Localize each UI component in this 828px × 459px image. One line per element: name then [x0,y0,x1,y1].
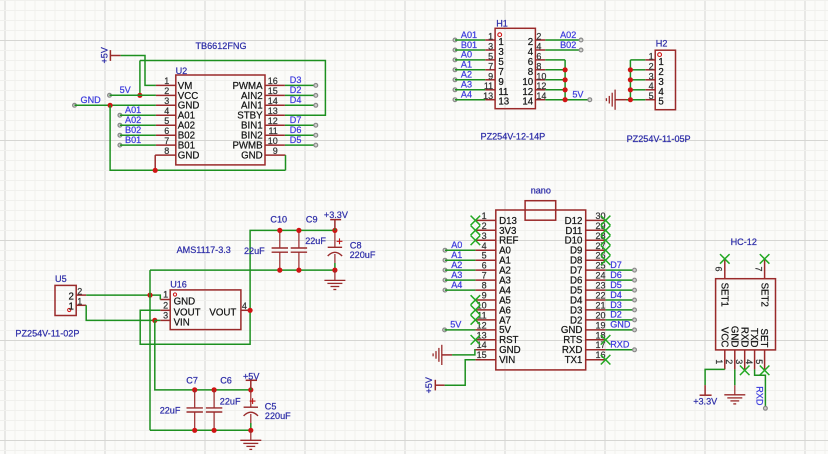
junction GND branch [108,103,113,108]
svg-text:A01: A01 [461,30,477,40]
svg-text:5: 5 [482,251,487,261]
H1 pin 3 [485,42,504,59]
svg-text:23: 23 [595,281,605,291]
HC-12 pin 6 (SET1) [714,259,730,307]
svg-text:13: 13 [268,106,278,116]
svg-text:220uF: 220uF [265,411,291,421]
svg-text:24: 24 [595,271,605,281]
no-connect crosses nano left [471,216,481,345]
label H2 [656,39,668,49]
H1 pin 7 [485,61,504,78]
U2 pin 9 (GND) [241,146,285,162]
net label A01 (H1) [453,30,485,42]
nano pin 23 (D5) [570,281,606,297]
svg-text:4: 4 [536,42,541,52]
svg-text:D7: D7 [610,260,622,270]
H1 pin 9 [485,71,504,88]
connector H2 body [655,50,675,109]
U16 pin 1 (GND) [160,290,195,308]
net label A2 (H1) [453,70,485,82]
junctions H1 bus [563,67,568,102]
svg-text:7: 7 [753,267,763,272]
svg-text:GND: GND [728,326,739,348]
H1 pin 14 [522,91,546,108]
svg-text:D4: D4 [290,95,302,105]
wire GND bottom loop [110,105,285,170]
net label 5V [108,85,156,97]
svg-text:A0: A0 [461,50,472,60]
net label A01 (U2) [118,105,156,117]
svg-text:A02: A02 [560,30,576,40]
net label B02 (H1 right) [545,40,583,52]
svg-text:15: 15 [268,86,278,96]
svg-text:AMS1117-3.3: AMS1117-3.3 [177,245,231,255]
svg-text:1: 1 [488,32,493,42]
net label GND (nano right) [606,320,637,332]
wire U5.1 to VIN [86,305,155,320]
label H1 [496,19,508,29]
svg-text:11: 11 [484,81,493,91]
value 22uF (C10) [244,246,265,256]
wire 3.3V mid rail [150,269,335,271]
U2 pin 2 (VCC) [156,86,198,102]
svg-text:GND: GND [610,320,631,330]
net label D5 (nano right) [606,280,637,292]
H2 pin 1 [645,51,663,68]
label C6 [220,375,232,385]
supply +3.3V (C8) [324,210,349,230]
capacitor C10 [272,230,288,270]
svg-text:U16: U16 [170,279,187,289]
nano pin 14 (GND) [475,340,520,356]
U16 pin 4 (VOUT) [209,301,250,319]
nano pin 5 (A1) [475,251,511,267]
svg-text:HC-12: HC-12 [731,237,757,247]
svg-text:D3: D3 [610,300,622,310]
ground symbol (nano) [433,345,452,365]
svg-text:9: 9 [482,291,487,301]
svg-text:1: 1 [163,290,168,300]
svg-text:SET1: SET1 [719,283,730,307]
svg-text:5: 5 [488,51,493,61]
wire gnd to nano pin14 [452,350,475,355]
svg-text:5: 5 [649,91,654,101]
nano pin 12 (5V) [475,320,511,336]
regulator U16 body [170,290,241,330]
U2 pin 14 (AIN1) [241,96,285,112]
svg-text:2: 2 [724,359,734,364]
IC nano body [496,201,586,370]
H1 pin 1 [485,32,504,49]
H1 pin 10 [522,71,546,88]
svg-text:21: 21 [595,300,605,310]
net label D3 (U2 right) [285,75,318,87]
svg-text:5V: 5V [120,85,132,95]
svg-text:6: 6 [714,267,724,272]
svg-text:4: 4 [482,241,487,251]
svg-text:RXD: RXD [755,386,765,406]
svg-text:A4: A4 [451,280,462,290]
net label D7 (U2 right) [285,115,318,127]
svg-text:C6: C6 [220,375,232,385]
svg-text:6: 6 [164,126,169,136]
no-connect crosses nano right [601,216,611,365]
nano pin 29 (D11) [565,221,605,237]
svg-text:C10: C10 [270,215,287,225]
svg-text:6: 6 [482,261,487,271]
HC-12 pin 2 (GND) [724,326,739,370]
svg-text:3: 3 [734,359,744,364]
U2 pin 1 (VM) [156,76,192,92]
module HC-12 body [716,279,776,350]
svg-text:4: 4 [164,106,169,116]
svg-text:2: 2 [77,286,82,296]
svg-text:VIN: VIN [499,355,515,366]
wire VIN column to 5V rail [155,320,251,390]
net label B01 (H1) [453,40,485,52]
value TB6612FNG [196,41,247,51]
wire TXD to RXD net [755,369,766,408]
U2 pin 16 (PWMA) [232,76,284,92]
svg-text:14: 14 [522,97,533,108]
capacitor C8 [328,230,343,270]
svg-text:1: 1 [649,51,654,61]
svg-text:5V: 5V [450,320,462,330]
nano pin 10 (A6) [475,300,511,316]
U2 pin 11 (BIN2) [241,126,285,142]
svg-text:VOUT: VOUT [209,307,236,318]
svg-text:A1: A1 [461,60,472,70]
nano pin 3 (REF) [475,231,518,247]
net label A0 (nano) [443,240,475,252]
svg-text:16: 16 [268,76,278,86]
svg-text:VCC: VCC [718,327,729,347]
svg-text:D4: D4 [610,290,622,300]
svg-text:TXD: TXD [748,328,759,347]
supply +5V (nano) [424,376,445,393]
junction VOUT pin4 [248,308,253,313]
HC-12 pin 5 (SET) [754,329,769,370]
label C8 [350,241,362,251]
svg-text:D5: D5 [610,280,622,290]
net label A02 (H1 right) [545,30,583,42]
nano pin 19 (GND) [561,320,606,336]
svg-text:10: 10 [268,136,278,146]
HC-12 pin 4 (TXD) [744,328,759,369]
U2 pin 10 (PWMB) [232,136,284,152]
svg-text:11: 11 [477,310,486,320]
no-connect crosses HC-12 bottom [740,366,770,376]
connector U5 body [55,285,76,315]
svg-text:+3.3V: +3.3V [324,210,349,220]
svg-text:2: 2 [536,32,541,42]
U2 pin 3 (GND) [156,96,199,112]
H2 pin 5 [645,91,663,108]
net label B02 (U2) [118,125,156,137]
svg-text:C8: C8 [350,241,362,251]
junctions C9 [296,228,301,273]
value 220uF (C8) [350,250,376,260]
wire VCC to +3.3V [705,369,725,385]
supply +3.3V (HC-12) [693,385,718,406]
label C10 [270,215,287,225]
supply +5V (C5) [243,371,260,390]
capacitor C9 [291,230,307,270]
wire +5V to VM [121,56,156,86]
svg-text:H1: H1 [496,19,508,29]
nano pin 22 (D4) [570,291,606,307]
nano pin 8 (A4) [475,281,511,297]
capacitor C6 [206,390,222,430]
junction C5 [248,428,253,433]
svg-text:A02: A02 [125,115,141,125]
svg-text:C9: C9 [306,215,318,225]
value PZ254V-11-02P [15,329,79,339]
svg-text:1: 1 [164,76,169,86]
svg-text:22uF: 22uF [244,246,265,256]
svg-text:nano: nano [531,185,551,195]
svg-text:2: 2 [649,61,654,71]
U2 pin 4 (A01) [156,106,195,122]
svg-text:22uF: 22uF [160,406,181,416]
wire gnd rail (bottom) [150,429,251,431]
net label A1 (nano) [443,250,475,262]
net label A2 (nano) [443,260,475,272]
svg-text:A0: A0 [451,240,462,250]
H2 pin 2 [645,61,663,78]
svg-text:A4: A4 [461,90,472,100]
svg-text:RXD: RXD [610,340,630,350]
connector H1 body [495,28,535,108]
nano pin 18 (RTS) [563,330,605,346]
svg-text:5V: 5V [572,90,584,100]
junctions C8 [332,228,337,273]
svg-text:PZ254V-12-14P: PZ254V-12-14P [481,132,546,142]
nano pin 28 (D10) [565,231,606,247]
svg-text:A3: A3 [461,80,472,90]
svg-text:3: 3 [482,231,487,241]
svg-text:13: 13 [477,330,487,340]
nano pin 27 (D9) [570,241,606,257]
net label A0 (H1) [453,50,485,62]
wire 5V rail to STBY [140,61,326,116]
svg-text:A3: A3 [451,270,462,280]
svg-text:5: 5 [164,116,169,126]
H1 pin 5 [485,51,504,68]
svg-text:10: 10 [536,71,546,81]
value nano [531,185,551,195]
H1 pin 11 [484,81,509,98]
U16 pin 2 (VOUT) [160,301,200,319]
net label 5V (H1) [572,90,591,102]
capacitor C7 [187,390,203,430]
nano pin 2 (3V3) [475,221,516,237]
svg-text:22uF: 22uF [305,236,326,246]
net label D6 (nano right) [606,270,637,282]
label U16 [170,279,187,289]
HC-12 pin 7 (SET2) [753,259,769,307]
svg-text:6: 6 [536,51,541,61]
svg-text:U2: U2 [176,66,188,76]
H2 pin 4 [645,81,664,98]
svg-text:A2: A2 [461,70,472,80]
svg-text:8: 8 [482,281,487,291]
svg-text:20: 20 [595,310,605,320]
net label D4 (nano right) [606,290,637,302]
net label A4 (nano) [443,280,475,292]
nano pin 16 (TX1) [565,350,606,366]
svg-text:GND: GND [178,151,200,162]
svg-text:B01: B01 [461,40,477,50]
svg-text:B02: B02 [560,40,576,50]
H1 pin 2 [528,32,545,49]
wire VOUT loop [140,230,335,344]
wire GND column [149,270,151,430]
label C9 [306,215,318,225]
svg-text:7: 7 [488,61,493,71]
svg-text:+5V: +5V [100,46,110,63]
nano pin 11 (A7) [475,310,511,326]
wire +5V to VIN [445,360,476,386]
net label 5V (nano) [443,320,476,332]
svg-text:2: 2 [164,86,169,96]
nano pin 25 (D7) [570,261,606,277]
value PZ254V-11-05P [627,134,691,144]
svg-text:A2: A2 [451,260,462,270]
nano pin 4 (A0) [475,241,511,257]
svg-text:1: 1 [482,211,487,221]
svg-text:7: 7 [482,271,487,281]
svg-text:B01: B01 [125,135,141,145]
wire pin9 GND drop [285,155,287,170]
value 220uF (C5) [265,411,291,421]
H1 pin 13 [483,91,509,108]
svg-text:8: 8 [536,61,541,71]
value 22uF (C7) [160,406,181,416]
wire +5V rail (C7 C6) [192,387,253,392]
svg-text:3: 3 [164,96,169,106]
HC-12 pin 3 (RXD) [734,327,749,369]
ground symbol (H2) [606,90,626,110]
capacitor C5 [244,390,258,430]
svg-text:PZ254V-11-02P: PZ254V-11-02P [15,329,79,339]
label C7 [186,375,198,385]
svg-text:D2: D2 [290,85,302,95]
svg-text:12: 12 [268,116,278,126]
svg-text:1: 1 [77,297,82,307]
ground symbol (C5) [240,430,261,449]
svg-text:VIN: VIN [174,317,190,328]
net label D4 (U2 right) [285,95,318,107]
U2 pin 12 (BIN1) [241,116,285,132]
svg-text:9: 9 [273,146,278,156]
svg-text:22: 22 [595,291,605,301]
U2 pin 13 (STBY) [237,106,285,122]
svg-text:14: 14 [536,91,546,101]
svg-text:PZ254V-11-05P: PZ254V-11-05P [627,134,691,144]
svg-text:19: 19 [595,320,605,330]
svg-text:H2: H2 [656,39,668,49]
junction VIN node [152,318,157,323]
U5 pin 1 [69,297,87,313]
net label D6 (U2 right) [285,125,318,137]
wire rail drop to VCC [139,61,141,96]
junctions C6 [212,428,217,433]
wire H2 gnd bus [627,60,646,100]
svg-text:B02: B02 [125,125,141,135]
nano pin 15 (VIN) [475,350,515,366]
nano pin 30 (D12) [565,211,606,227]
svg-text:15: 15 [477,350,487,360]
HC-12 pin 1 (VCC) [714,327,729,369]
svg-text:2: 2 [163,301,168,311]
nano pin 1 (D13) [475,211,516,227]
U2 pin 7 (B01) [156,136,195,152]
junctions C7 [192,428,197,433]
svg-text:2: 2 [482,221,487,231]
svg-text:1: 1 [714,359,724,364]
net label GND [73,95,156,107]
nano pin 26 (D8) [570,251,606,267]
H1 pin 12 [522,81,546,98]
value HC-12 [731,237,757,247]
svg-text:+3.3V: +3.3V [693,396,718,406]
svg-text:3: 3 [163,311,168,321]
ground symbol (HC-12) [724,385,745,404]
net label A1 (H1) [453,60,485,72]
svg-text:12: 12 [536,81,546,91]
net label RXD (HC-12) [755,386,768,410]
H1 pin 4 [528,42,545,59]
svg-text:3: 3 [649,71,654,81]
svg-text:GND: GND [81,95,102,105]
svg-text:14: 14 [268,96,278,106]
nano pin 6 (A2) [475,261,511,277]
U2 pin 8 (GND) [155,146,199,170]
svg-text:C5: C5 [265,402,277,412]
wire U5.2 to U16 GND [86,295,160,299]
U2 pin 6 (B02) [156,126,195,142]
svg-text:11: 11 [268,126,277,136]
nano pin 13 (RST) [475,330,518,346]
svg-text:SET: SET [758,329,769,348]
svg-text:D7: D7 [290,115,302,125]
net label D2 (U2 right) [285,85,318,97]
no-connect crosses HC-12 top [720,254,769,264]
svg-text:220uF: 220uF [350,250,376,260]
wire VIN stub join [155,319,161,321]
nano pin 21 (D3) [570,300,606,316]
svg-text:+5V: +5V [243,371,260,381]
ground symbol (C8) [324,270,345,289]
svg-text:4: 4 [744,359,754,364]
H1 pin 8 [528,61,545,78]
svg-text:D6: D6 [610,270,622,280]
svg-text:4: 4 [242,301,247,311]
junctions H2 bus [628,67,633,102]
junction VCC node [137,93,142,98]
svg-text:9: 9 [488,71,493,81]
svg-text:3: 3 [488,42,493,52]
net label A3 (nano) [443,270,475,282]
U2 pin 5 (A02) [156,116,195,132]
svg-text:1: 1 [69,302,74,313]
net label A3 (H1) [453,80,485,92]
junctions C10 [277,228,282,273]
net label D7 (nano right) [606,260,637,272]
svg-text:A01: A01 [125,105,141,115]
svg-text:GND: GND [241,151,263,162]
